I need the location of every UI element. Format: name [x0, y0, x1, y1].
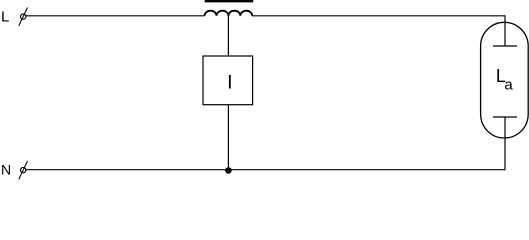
wire: inductor to lamp (top)	[252, 15, 505, 17]
wire: N terminal to lamp (bottom)	[26, 169, 505, 171]
terminal N	[19, 161, 28, 179]
wire: ignitor to bottom junction	[227, 105, 229, 170]
lamp top electrode	[493, 45, 517, 47]
junction	[225, 167, 232, 174]
svg-text:L: L	[1, 9, 9, 26]
wire: inductor tap down to ignitor	[227, 16, 229, 56]
svg-text:N: N	[1, 162, 11, 178]
svg-text:a: a	[504, 77, 513, 94]
lamp La envelope	[481, 22, 529, 138]
lamp top lead	[504, 15, 506, 46]
inductor core bar	[205, 0, 254, 2]
wire: L terminal to inductor	[26, 15, 205, 17]
svg-text:I: I	[227, 72, 232, 94]
inductor (ballast choke) winding	[205, 11, 253, 16]
terminal L	[19, 8, 28, 26]
lamp bottom lead	[504, 117, 506, 170]
ignitor I box	[203, 56, 253, 105]
lamp bottom electrode	[493, 116, 517, 118]
